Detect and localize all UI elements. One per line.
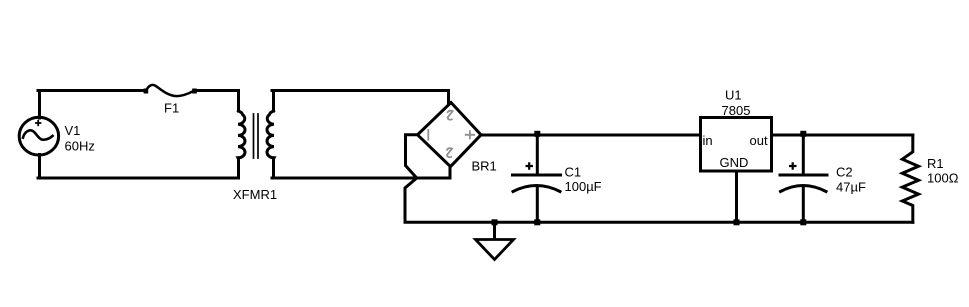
svg-text:60Hz: 60Hz	[65, 138, 95, 153]
svg-text:out: out	[750, 133, 768, 148]
svg-text:XFMR1: XFMR1	[233, 187, 277, 202]
svg-text:GND: GND	[720, 155, 749, 170]
svg-text:7805: 7805	[722, 103, 751, 118]
svg-text:C2: C2	[836, 165, 853, 180]
svg-text:F1: F1	[164, 100, 179, 115]
svg-text:U1: U1	[725, 88, 742, 103]
svg-text:V1: V1	[65, 123, 81, 138]
svg-text:R1: R1	[927, 156, 944, 171]
svg-text:100Ω: 100Ω	[927, 171, 959, 186]
svg-text:BR1: BR1	[472, 159, 497, 174]
svg-text:C1: C1	[565, 164, 582, 179]
svg-text:47µF: 47µF	[836, 179, 866, 194]
svg-text:in: in	[703, 133, 713, 148]
svg-text:100µF: 100µF	[565, 179, 602, 194]
